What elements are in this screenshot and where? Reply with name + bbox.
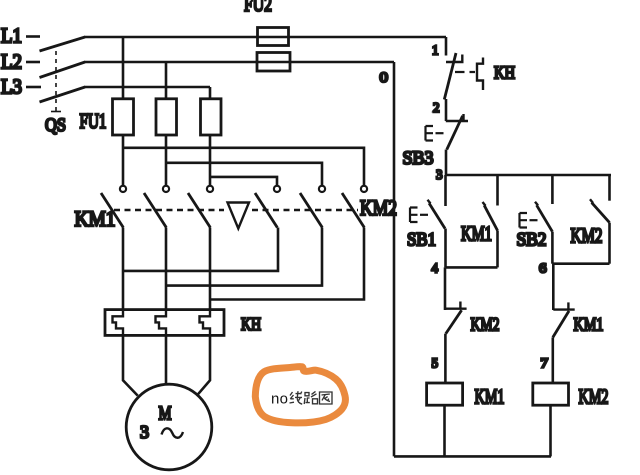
wire KM2 coil to bottom bus: [549, 405, 552, 456]
contactor KM1 main contact 2: [144, 186, 169, 228]
contactor KM2 main contact 1: [255, 186, 280, 228]
svg-text:KH: KH: [241, 314, 261, 334]
stop button SB3: [426, 114, 469, 150]
contactor KM2 main contact 3: [342, 186, 367, 228]
interlock KM2 NC contact: [445, 267, 467, 383]
interlock KM1 NC contact: [553, 264, 575, 383]
wire KM1 output 2: [165, 228, 168, 310]
wire node 4: [446, 266, 498, 269]
linkage triangle: [228, 203, 250, 229]
svg-text:QS: QS: [45, 115, 66, 136]
disconnect switch QS linkage and label: [45, 51, 66, 136]
coil KM1: [427, 383, 463, 405]
wire SB2 to node 6: [551, 232, 554, 264]
wire L3 bus: [84, 86, 210, 89]
wire KM2 output 1 join: [123, 228, 278, 271]
annotation text no wiring diagram: [271, 391, 332, 408]
node L1: [1, 24, 40, 48]
svg-text:5: 5: [432, 356, 439, 371]
wire node 3 bus: [446, 174, 611, 177]
wire phase 3 to KM1 contact: [209, 135, 212, 186]
wire KM2 output 2 join: [166, 228, 322, 286]
wire phase 2 drop: [165, 62, 168, 99]
svg-text:KM2: KM2: [360, 195, 397, 220]
svg-text:no: no: [271, 391, 288, 408]
fuse FU2a: [258, 28, 289, 46]
node L3: [1, 75, 41, 99]
svg-text:KM1: KM1: [574, 315, 604, 336]
svg-text:6: 6: [539, 261, 547, 276]
svg-text:M: M: [159, 403, 172, 425]
svg-text:4: 4: [432, 261, 439, 276]
wire tap phase3 to KM2 contact a: [210, 177, 277, 186]
wire motor lead 2: [165, 335, 168, 384]
wire motor lead 1: [123, 335, 138, 395]
svg-text:SB2: SB2: [517, 230, 547, 251]
svg-text:KM2: KM2: [471, 315, 500, 336]
wire control L1 drop: [445, 37, 448, 56]
svg-text:SB1: SB1: [407, 230, 436, 251]
wire KM1 coil to bottom bus: [443, 405, 446, 456]
wire node 6: [552, 262, 609, 265]
wire tap phase1 to KM2 contact c: [123, 148, 364, 186]
wire to node 3: [445, 150, 448, 176]
thermal relay KH heater 1: [113, 310, 124, 336]
contactor KM1 main contact 3: [188, 186, 213, 228]
svg-text:KM2: KM2: [579, 385, 609, 409]
thermal relay KH element symbol: [455, 58, 483, 91]
node L2: [1, 50, 40, 74]
wire bottom bus: [394, 455, 551, 458]
disconnect switch QS pole 2 blade: [40, 62, 86, 78]
svg-text:FU1: FU1: [80, 109, 107, 133]
wire phase 1 drop: [122, 37, 125, 99]
wire tap phase2 to KM2 contact b: [166, 163, 322, 186]
coil KM2: [533, 383, 569, 405]
start button SB2: [520, 175, 553, 232]
svg-text:KM1: KM1: [475, 385, 505, 409]
wire motor lead 3: [198, 335, 211, 394]
wire KM1 output 1: [122, 228, 125, 310]
mechanical linkage dashed line: [114, 209, 358, 211]
svg-text:7: 7: [541, 356, 549, 371]
svg-text:0: 0: [380, 70, 389, 86]
annotation orange loop: [255, 367, 345, 423]
thermal relay KH NC contact: [444, 53, 463, 100]
fuse FU1b: [156, 99, 177, 135]
wire phase 3 drop: [209, 87, 212, 99]
thermal relay KH box: [105, 310, 224, 336]
start button SB1: [410, 175, 446, 229]
wire L2 bus: [84, 61, 394, 64]
svg-text:2: 2: [433, 100, 440, 115]
wire phase 2 to KM1 contact: [165, 135, 168, 186]
svg-text:KM1: KM1: [75, 206, 116, 231]
svg-text:L2: L2: [1, 50, 22, 74]
svg-text:3: 3: [436, 167, 443, 182]
wire phase 1 to KM1 contact: [122, 135, 125, 186]
disconnect switch QS pole 3 blade: [40, 87, 86, 102]
wire node 2: [445, 99, 448, 121]
motor M: [126, 384, 212, 470]
thermal relay KH heater 2: [156, 310, 167, 336]
contactor KM2 main contact 2: [300, 186, 325, 228]
disconnect switch QS pole 1 blade: [40, 37, 86, 51]
wire L1 bus: [84, 36, 446, 39]
svg-text:KH: KH: [494, 63, 515, 83]
svg-text:1: 1: [432, 43, 439, 58]
wire control L2 drop node 0: [393, 62, 396, 456]
wire KM1 output 3: [209, 228, 212, 310]
svg-text:KM1: KM1: [461, 222, 492, 246]
fuse FU1c: [201, 99, 222, 135]
svg-text:FU2: FU2: [244, 0, 272, 16]
auxiliary contact KM1 NO: [483, 175, 498, 267]
auxiliary contact KM2 NO: [590, 175, 610, 264]
fuse FU2b: [257, 53, 290, 72]
svg-text:KM2: KM2: [571, 224, 603, 248]
wire KM2 output 3 join: [210, 228, 364, 300]
svg-text:SB3: SB3: [403, 148, 434, 169]
svg-text:L1: L1: [1, 24, 22, 48]
wire SB1 to node 4: [444, 229, 447, 268]
contactor KM1 main contact 1: [101, 186, 126, 228]
svg-text:3: 3: [140, 422, 149, 442]
svg-text:L3: L3: [1, 75, 22, 99]
thermal relay KH heater 3: [200, 310, 211, 336]
fuse FU1a: [113, 99, 134, 135]
